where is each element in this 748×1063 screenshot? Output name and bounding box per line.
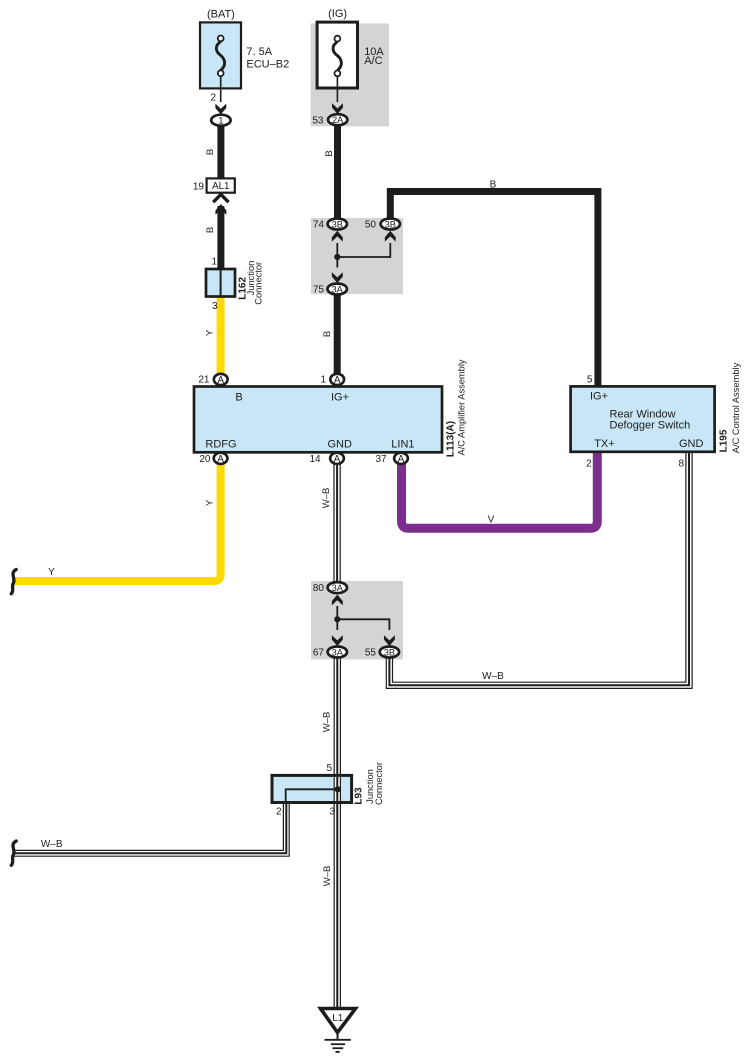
fuse ECU-B2 (BAT) box [200, 22, 241, 88]
svg-text:14: 14 [309, 454, 321, 465]
svg-text:19: 19 [193, 182, 205, 193]
svg-text:Connector: Connector [374, 762, 384, 805]
arrow down into 55 [384, 635, 395, 646]
fuse ECU-B2 element [216, 36, 224, 103]
svg-text:3A: 3A [332, 583, 344, 593]
connector ellipse 67 3A [328, 647, 347, 658]
junction dot 80/67/55 [334, 616, 340, 622]
gray background block connector group 74/50/75 [311, 218, 403, 294]
svg-text:74: 74 [313, 220, 325, 231]
svg-text:TX+: TX+ [594, 438, 614, 450]
svg-text:3: 3 [212, 301, 218, 312]
svg-text:3: 3 [329, 806, 335, 817]
wire W-B from connector 55 to defogger switch pin 8 [389, 451, 689, 686]
link wires between 80/67/55 [337, 606, 389, 630]
wire B from connector 1 down to AL1 [217, 124, 224, 180]
svg-text:21: 21 [198, 374, 210, 385]
svg-text:RDFG: RDFG [205, 438, 236, 450]
svg-text:2: 2 [210, 93, 216, 104]
svg-text:W–B: W–B [482, 671, 504, 682]
svg-text:2A: 2A [332, 115, 344, 125]
amplifier pin 20 circle A [214, 453, 228, 465]
svg-text:B: B [490, 180, 497, 191]
wire B from connector 50 to defogger switch pin 5 [390, 192, 598, 389]
wire Y from amplifier pin 20 to left edge continuation [14, 464, 221, 581]
svg-text:A: A [334, 454, 341, 465]
svg-text:1: 1 [211, 257, 217, 268]
svg-text:Y: Y [205, 329, 216, 336]
svg-text:3B: 3B [384, 648, 395, 658]
svg-text:B: B [322, 331, 333, 337]
svg-text:L113(A): L113(A) [446, 421, 457, 457]
svg-text:A: A [334, 375, 341, 386]
svg-text:IG+: IG+ [331, 391, 349, 403]
wire W-B from L93 pin 2 to left edge continuation [14, 802, 286, 853]
svg-text:B: B [324, 150, 335, 156]
fuse A/C (IG) box [317, 22, 357, 88]
wire W-B from connector 67 through L93 to ground L1 [334, 657, 341, 1010]
svg-text:2: 2 [276, 806, 282, 817]
svg-text:50: 50 [365, 220, 377, 231]
svg-text:1: 1 [218, 116, 223, 127]
svg-text:A: A [217, 454, 224, 465]
arrow up into 74 [332, 231, 343, 242]
amplifier pin 14 circle A [330, 453, 344, 465]
svg-text:80: 80 [313, 583, 325, 594]
svg-text:(IG): (IG) [328, 8, 347, 20]
arrow down into 67 [332, 635, 343, 646]
A/C amplifier assembly box L113(A) [194, 387, 442, 453]
link wires between 74/50/75 [337, 243, 390, 268]
gray background block IG fuse area [311, 23, 389, 126]
svg-text:(BAT): (BAT) [207, 9, 235, 21]
svg-text:8: 8 [678, 459, 684, 470]
svg-text:V: V [488, 515, 495, 526]
svg-text:A/C Amplifier Assembly: A/C Amplifier Assembly [457, 359, 467, 455]
wire W-B through L93 [334, 777, 341, 801]
continuation squiggle W-B wire [11, 841, 16, 865]
svg-text:IG+: IG+ [590, 390, 608, 402]
ground triangle L1 [321, 1009, 356, 1033]
svg-text:L93: L93 [354, 787, 365, 805]
svg-text:B: B [235, 391, 242, 403]
svg-text:5: 5 [326, 763, 332, 774]
svg-text:75: 75 [313, 285, 325, 296]
L162 divider [220, 270, 222, 296]
svg-text:A: A [217, 375, 224, 386]
svg-text:GND: GND [679, 438, 704, 450]
connector ellipse 74 3B [328, 219, 347, 230]
svg-text:5: 5 [587, 375, 593, 386]
svg-text:Y: Y [205, 499, 216, 506]
svg-text:B: B [205, 149, 216, 155]
svg-text:1: 1 [320, 374, 326, 385]
svg-text:W–B: W–B [322, 866, 333, 887]
ground stem [337, 1033, 339, 1040]
svg-text:B: B [205, 227, 216, 233]
arrow down into 75 [332, 272, 343, 283]
wire Y from L162 pin 3 down to amplifier pin 21 [217, 296, 225, 375]
ground symbol bars [325, 1039, 351, 1041]
svg-text:A/C Control Assembly: A/C Control Assembly [731, 362, 741, 453]
svg-text:37: 37 [375, 454, 387, 465]
svg-text:W–B: W–B [321, 488, 332, 509]
arrow into connector 2A [332, 103, 343, 114]
arrow up into 50 [385, 231, 396, 242]
svg-text:ECU–B2: ECU–B2 [246, 59, 289, 71]
rear window defogger switch box L195 [571, 386, 715, 451]
amplifier pin 1 circle A [330, 374, 344, 386]
connector ellipse 50 3B [381, 219, 400, 230]
wire W-B from amplifier pin 14 to connector 80 [333, 464, 340, 582]
junction dot 74/50/75 [334, 254, 340, 260]
connector ellipse 55 3B [380, 647, 399, 658]
svg-text:3B: 3B [332, 220, 343, 230]
arrow into connector 1 [215, 104, 226, 115]
svg-text:20: 20 [199, 454, 211, 465]
svg-text:W–B: W–B [322, 712, 333, 733]
open chevron below AL1 [213, 194, 228, 202]
svg-text:A/C: A/C [364, 55, 382, 67]
wire B from connector 75 down to amplifier pin 1 [334, 294, 341, 374]
svg-text:AL1: AL1 [212, 181, 229, 192]
svg-text:2: 2 [586, 459, 592, 470]
svg-text:3A: 3A [332, 285, 344, 295]
svg-text:A: A [398, 454, 405, 465]
svg-text:55: 55 [365, 648, 377, 659]
L93 internal branch wire [286, 789, 338, 802]
svg-text:7. 5A: 7. 5A [246, 46, 272, 58]
junction connector L162 [206, 269, 235, 297]
continuation squiggle yellow wire [11, 570, 16, 594]
amplifier pin 37 circle A [394, 453, 408, 465]
junction connector L93 [272, 775, 352, 802]
connector ellipse 75 3A [328, 284, 347, 295]
svg-text:W–B: W–B [41, 839, 63, 850]
svg-text:67: 67 [313, 648, 325, 659]
fuse A/C element [333, 36, 341, 102]
svg-text:3B: 3B [385, 220, 396, 230]
wire B from AL1 arrow down to L162 pin 1 [217, 206, 224, 270]
svg-text:53: 53 [312, 115, 324, 126]
connector ellipse 80 3A [328, 582, 347, 593]
connector ellipse 1 [211, 115, 230, 126]
svg-text:LIN1: LIN1 [391, 438, 414, 450]
svg-text:3A: 3A [332, 648, 344, 658]
svg-text:L1: L1 [332, 1013, 344, 1024]
junction dot L93 [335, 786, 341, 792]
svg-text:L195: L195 [718, 429, 729, 452]
wire V from amplifier pin 37 to defogger switch pin 2 [402, 451, 598, 528]
svg-text:Connector: Connector [253, 262, 263, 305]
svg-text:GND: GND [327, 438, 352, 450]
wire B from connector 2A down to connector 74 [334, 124, 341, 219]
svg-text:Defogger Switch: Defogger Switch [610, 419, 691, 431]
arrow into AL1 [215, 204, 226, 215]
arrow up into 80 [332, 595, 343, 606]
junction block AL1 [207, 178, 235, 192]
connector ellipse 2A [328, 114, 347, 125]
gray background block connector group 80/67/55 [311, 581, 403, 660]
svg-text:Y: Y [48, 567, 55, 578]
amplifier pin 21 circle A [214, 374, 228, 386]
